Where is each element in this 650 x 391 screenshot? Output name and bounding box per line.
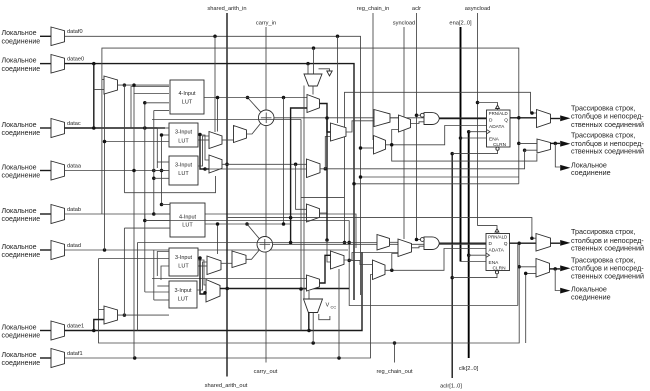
LUT 3-input top-2 xyxy=(169,156,198,185)
wire out3 xyxy=(551,242,561,244)
svg-text:aclr: aclr xyxy=(412,6,421,12)
wire mid1b xyxy=(198,260,206,285)
wire carrymux in2 xyxy=(313,48,315,74)
wire MA2 out xyxy=(390,241,399,243)
wire W1 out diag xyxy=(247,124,261,135)
junction datae0-b xyxy=(306,62,310,66)
wire aclr-and1 xyxy=(417,114,421,116)
svg-text:соединение: соединение xyxy=(2,130,41,137)
arrow out3 xyxy=(560,240,570,246)
svg-text:ственных соединений: ственных соединений xyxy=(571,243,644,252)
junction v161c xyxy=(160,203,164,207)
wire bundle v3b xyxy=(153,250,155,300)
svg-text:ADATA: ADATA xyxy=(489,124,505,130)
wire adder bottom out xyxy=(273,243,486,245)
wire bundle v1 xyxy=(123,85,125,193)
wire AND top out xyxy=(439,118,486,120)
wire datae0 to isel xyxy=(93,64,95,128)
wire B2l out xyxy=(220,288,349,290)
svg-text:dataf0: dataf0 xyxy=(67,29,83,35)
junction datac-b xyxy=(143,126,147,130)
wire syncload xyxy=(403,27,405,239)
wire isel top stub xyxy=(94,89,104,91)
wire lut1 in2b xyxy=(133,85,135,93)
svg-text:Локальное: Локальное xyxy=(2,352,37,359)
svg-text:PRN/ALD: PRN/ALD xyxy=(488,235,507,240)
wire mux4-in1 xyxy=(519,266,536,268)
svg-text:Локальное: Локальное xyxy=(2,122,37,129)
wire bundle v2 xyxy=(144,103,146,221)
junction aclr-ff2 xyxy=(450,276,454,280)
wire W2 out diag xyxy=(246,250,259,259)
svg-text:соединение: соединение xyxy=(2,333,41,340)
flip-flop bottom xyxy=(486,234,510,271)
wire out2 xyxy=(550,142,560,144)
wire bundle v1b xyxy=(123,228,125,315)
svg-text:LUT: LUT xyxy=(178,171,189,177)
wire v161 xyxy=(161,135,163,205)
wire lut1 in2 xyxy=(134,94,169,171)
mux S2 xyxy=(307,204,320,222)
wire datae1 to isel xyxy=(94,320,104,331)
svg-text:asyncload: asyncload xyxy=(465,6,491,12)
junction shared-a xyxy=(225,163,229,167)
svg-text:PRN/ALD: PRN/ALD xyxy=(489,111,508,116)
wire w1 feed xyxy=(217,98,219,132)
ff2 clrn pin xyxy=(495,271,498,274)
wire left outer v xyxy=(104,89,106,251)
junction s1 out xyxy=(324,167,328,171)
wire lut6 in3 xyxy=(154,299,169,301)
input driver datae1 xyxy=(40,330,51,332)
junction adder top in xyxy=(246,96,250,100)
wire mid2 xyxy=(198,139,209,141)
wire c2 out xyxy=(320,255,331,283)
wire lut2 in3 xyxy=(105,141,170,143)
wire v 339 xyxy=(338,269,340,358)
wire box left edge xyxy=(137,243,139,331)
svg-text:Локальное: Локальное xyxy=(2,244,37,251)
junction w1 feed xyxy=(216,96,220,100)
svg-text:ena[2..0]: ena[2..0] xyxy=(449,21,472,27)
junction adder bottom in xyxy=(245,222,249,226)
wire cross y168 xyxy=(205,168,307,170)
wire v 327b xyxy=(326,118,328,240)
svg-text:соединение: соединение xyxy=(571,168,611,177)
svg-text:LUT: LUT xyxy=(182,223,193,229)
wire asyncload-ff1 xyxy=(478,103,498,106)
wire lut4 in2 xyxy=(154,213,170,215)
svg-text:datad: datad xyxy=(67,243,81,249)
VCC bracket xyxy=(319,314,330,320)
wire datae0 xyxy=(65,64,355,300)
wire mid5b xyxy=(197,262,207,290)
junction out4 xyxy=(553,267,557,271)
svg-text:datae0: datae0 xyxy=(67,57,84,63)
junction cross y183 xyxy=(352,182,356,186)
svg-text:D: D xyxy=(489,118,493,124)
junction carrymux-in2 xyxy=(312,46,316,50)
wire VCC out2 xyxy=(312,313,314,344)
wire isel top out xyxy=(118,84,170,86)
wire MC1 to MB xyxy=(392,130,399,145)
junction mux2-in2 xyxy=(523,148,527,152)
junction x349 cross xyxy=(347,241,351,245)
svg-text:соединение: соединение xyxy=(571,292,611,301)
junction w2 feed xyxy=(216,222,220,226)
wire mux3-in1 xyxy=(227,218,536,239)
svg-text:LUT: LUT xyxy=(178,139,189,145)
wire r2 feed xyxy=(349,260,373,264)
wire lut6 in2 xyxy=(145,291,169,293)
wire lut4 in3 xyxy=(145,220,170,222)
svg-text:ственных соединений: ственных соединений xyxy=(571,272,644,281)
wire carrymux out xyxy=(312,86,314,95)
mux MB top xyxy=(399,115,411,132)
junction isel top out xyxy=(123,83,127,87)
junction cross y177 xyxy=(359,175,363,179)
wire MC1 out to ADATA1 xyxy=(386,126,487,145)
svg-text:ственных соединений: ственных соединений xyxy=(571,120,644,129)
mux out3 xyxy=(536,234,551,252)
junction aclr-and2 xyxy=(415,238,419,242)
wire VCC out xyxy=(308,313,310,331)
junction Q1-a xyxy=(517,116,521,120)
wire lut1 in4 xyxy=(154,110,169,112)
wire r2 in xyxy=(327,240,331,262)
wire 4lut bottom out xyxy=(205,223,291,225)
junction Q2-c xyxy=(311,341,315,345)
wire isel bottom out xyxy=(118,314,170,316)
wire carry chain xyxy=(265,27,267,363)
wire mid3c xyxy=(200,258,206,294)
junction v161a xyxy=(160,133,164,137)
svg-text:datae1: datae1 xyxy=(67,324,84,330)
wire aclr-and2 xyxy=(417,239,421,241)
wire out1 xyxy=(551,118,561,120)
wire lut3 in1 xyxy=(157,161,169,163)
mux out4 xyxy=(536,259,550,278)
wire A1 out xyxy=(222,139,234,141)
mux input-select bottom xyxy=(104,306,118,324)
wire Q1 out xyxy=(510,117,537,119)
wire adder bottom in diag xyxy=(247,224,259,239)
mux S1 xyxy=(307,159,321,178)
arrow local2 xyxy=(560,288,570,294)
wire lut5 in3 xyxy=(161,266,169,280)
wire cross y242 xyxy=(138,242,378,244)
mux C1 xyxy=(307,95,320,113)
wire asyncload xyxy=(477,13,479,226)
junction lut4 in3b xyxy=(143,219,147,223)
AND gate bottom xyxy=(424,237,439,250)
wire mux4-in2 xyxy=(526,273,536,343)
mux MA bottom xyxy=(377,235,390,251)
wire asyncload-ff2 xyxy=(478,226,498,229)
wire lut2 in2 xyxy=(162,134,170,136)
svg-text:dataa: dataa xyxy=(67,164,82,170)
junction c2 in2 xyxy=(299,287,303,291)
input driver datae0 xyxy=(40,63,51,65)
junction mux4-in2 xyxy=(524,272,528,276)
arrow local1 xyxy=(560,165,570,171)
mux A2l xyxy=(207,256,221,275)
wire isel top stub2 xyxy=(102,79,104,81)
junction dataa xyxy=(152,169,156,173)
arrow out1 xyxy=(560,115,570,121)
junction datad xyxy=(103,248,107,252)
wire MC1 down y161 xyxy=(392,145,537,161)
junction datae1-a xyxy=(92,329,96,333)
wire comb wrap top xyxy=(345,92,537,197)
mux MC bottom xyxy=(373,260,386,280)
wire clk-ff2 xyxy=(469,254,486,256)
wire lut3 in3 xyxy=(154,177,169,179)
wire adder top out xyxy=(274,117,487,119)
arrow symbol top xyxy=(319,69,330,71)
svg-text:CC: CC xyxy=(331,305,337,310)
input driver dataf0 xyxy=(40,35,51,37)
junction shared-b xyxy=(225,287,229,291)
wire local2 xyxy=(555,269,560,291)
arrow out2 xyxy=(560,141,570,147)
svg-text:Локальное: Локальное xyxy=(2,324,37,331)
svg-text:V: V xyxy=(326,303,330,309)
wire s2 out xyxy=(320,213,328,240)
junction datac-a xyxy=(92,126,96,130)
svg-text:соединение: соединение xyxy=(2,216,41,223)
wire MB2 out xyxy=(412,246,425,248)
svg-text:соединение: соединение xyxy=(2,360,41,367)
svg-text:Локальное: Локальное xyxy=(2,164,37,171)
wire comb wrap bottom xyxy=(349,221,518,306)
wire v 301 xyxy=(300,120,302,331)
wire dataf0 xyxy=(65,36,361,295)
input driver datab xyxy=(40,213,51,215)
svg-text:Локальное: Локальное xyxy=(2,208,37,215)
junction datae1-b xyxy=(307,329,311,333)
svg-text:shared_arith_out: shared_arith_out xyxy=(205,383,248,389)
wire r1 in2 xyxy=(325,137,330,169)
wire B1 out xyxy=(222,163,307,165)
junction r2 in xyxy=(325,238,329,242)
adder top xyxy=(258,110,274,126)
mux B1 xyxy=(209,155,222,173)
wire adder top in diag xyxy=(248,98,261,113)
svg-text:LUT: LUT xyxy=(178,296,189,302)
junction MC1 out xyxy=(390,143,394,147)
svg-text:4-Input: 4-Input xyxy=(179,214,197,220)
mux W1 xyxy=(234,126,247,143)
junction lut1 in3 xyxy=(143,101,147,105)
junction Q2-a xyxy=(517,241,521,245)
junction mid3a xyxy=(198,133,202,137)
svg-text:соединение: соединение xyxy=(2,252,41,259)
wire dataf1 xyxy=(65,275,373,359)
junction mid3c xyxy=(198,256,202,260)
input driver dataf1 xyxy=(40,357,51,359)
junction aclr-and1 xyxy=(415,113,419,117)
wire reg_chain_out xyxy=(394,343,396,363)
svg-text:LUT: LUT xyxy=(178,264,189,270)
wire ena-ff1 xyxy=(461,137,487,139)
wire datac xyxy=(65,127,166,129)
wire bundle v2b xyxy=(144,214,146,292)
svg-text:4-Input: 4-Input xyxy=(178,91,196,97)
wire lut1 in3 xyxy=(145,102,169,104)
wire bundle v3 xyxy=(153,111,155,215)
junction mux3-in1 xyxy=(530,236,534,240)
wire v 295 xyxy=(296,164,307,209)
wire bundle v4 xyxy=(156,128,158,168)
svg-text:reg_chain_in: reg_chain_in xyxy=(357,6,390,12)
wire v 290 xyxy=(291,108,307,243)
junction v3 datab xyxy=(152,212,156,216)
svg-text:3-Input: 3-Input xyxy=(175,255,193,261)
svg-text:syncload: syncload xyxy=(393,21,415,27)
AND gate top xyxy=(424,113,439,125)
svg-text:3-Input: 3-Input xyxy=(175,163,193,169)
junction asyncload-ff1 xyxy=(476,101,480,105)
mux W2 xyxy=(232,251,246,268)
junction dataf1-a xyxy=(133,356,137,360)
svg-text:Трассировка строк,: Трассировка строк, xyxy=(571,227,635,236)
wire mux2-in1 xyxy=(519,142,537,144)
junction comb top in xyxy=(530,111,534,115)
wire reg_chain_in xyxy=(372,13,374,140)
LUT 3-input bottom-2 xyxy=(169,281,197,308)
flip-flop top xyxy=(487,110,511,147)
svg-text:carry_out: carry_out xyxy=(254,369,278,375)
mux MC top xyxy=(374,136,386,155)
wire cross y183 xyxy=(354,183,519,185)
wire U wrap L3 xyxy=(124,176,215,193)
junction MC1 in2 xyxy=(359,146,363,150)
junction v290 end xyxy=(289,241,293,245)
wire cross y177 xyxy=(361,176,519,178)
wire isel bottom stub2 xyxy=(99,309,105,311)
wire mid4 xyxy=(198,136,209,166)
LUT 4-input bottom xyxy=(170,203,205,237)
mux C2 xyxy=(307,275,320,291)
wire dataa xyxy=(65,170,166,172)
svg-text:Q: Q xyxy=(504,118,508,124)
wire AND bottom out xyxy=(439,242,486,244)
svg-text:ственных соединений: ственных соединений xyxy=(571,147,644,156)
wire MC2 out to ADATA2 xyxy=(385,249,486,271)
wire lut6 top rail xyxy=(152,278,307,280)
wire MC1 in2 xyxy=(361,147,374,149)
wire datad xyxy=(65,249,349,251)
wire MC2 to MB2 xyxy=(392,254,398,271)
svg-text:соединение: соединение xyxy=(2,39,41,46)
junction B1-r xyxy=(294,163,298,167)
wire lut4 in4 xyxy=(124,227,170,229)
wire lut2 top rail xyxy=(152,119,301,121)
wire lut2 in1 xyxy=(157,127,169,129)
svg-text:ENA: ENA xyxy=(489,260,500,266)
wire v 304 xyxy=(303,86,305,300)
svg-text:datab: datab xyxy=(67,207,81,213)
junction lut4 in3 xyxy=(132,169,136,173)
wire out4 xyxy=(550,268,561,270)
junction mux3-in1b xyxy=(289,216,293,220)
wire carrymux in1 xyxy=(307,64,309,74)
svg-text:carry_in: carry_in xyxy=(256,21,276,27)
wire lutout share xyxy=(283,98,285,225)
wire c2 in2 xyxy=(301,288,307,290)
junction lut-out-r xyxy=(282,96,286,100)
svg-text:clk[2..0]: clk[2..0] xyxy=(459,366,479,372)
wire MA out xyxy=(390,117,399,119)
wire datab xyxy=(65,214,357,248)
svg-text:3-Input: 3-Input xyxy=(175,130,193,136)
mux out2 xyxy=(537,139,551,153)
junction comb bottom xyxy=(347,259,351,263)
mux R2 xyxy=(331,251,345,269)
wire aclr[1..0] xyxy=(451,154,453,378)
junction mid3b xyxy=(203,167,207,171)
junction Q1-b xyxy=(517,142,521,146)
svg-text:соединение: соединение xyxy=(2,66,41,73)
svg-text:соединение: соединение xyxy=(2,173,41,180)
wire carrymux2 in xyxy=(308,291,310,299)
svg-text:CLRN: CLRN xyxy=(492,266,506,272)
wire feedback bottom Q2 xyxy=(99,243,520,343)
junction datae0-a xyxy=(92,62,96,66)
wire aclr xyxy=(416,13,418,240)
mux out1 xyxy=(537,110,551,128)
junction r1 in xyxy=(325,116,329,120)
svg-text:datac: datac xyxy=(67,121,81,127)
LUT 4-input top xyxy=(170,80,204,114)
junction clk-ff1 xyxy=(467,130,471,134)
svg-text:CLRN: CLRN xyxy=(493,142,507,148)
svg-text:reg_chain_out: reg_chain_out xyxy=(376,369,412,375)
wire comb drop x344 xyxy=(344,198,346,243)
junction isel bottom out xyxy=(123,313,127,317)
wire lut4 in1 xyxy=(162,204,171,206)
arrow out4 xyxy=(560,265,570,271)
mux input-select top xyxy=(104,76,118,94)
wire cross y197 xyxy=(301,197,345,199)
wire cross y220 xyxy=(145,220,349,222)
mux B2l xyxy=(206,280,220,303)
junction clk-ff2 xyxy=(467,253,471,257)
wire r2 out xyxy=(344,253,398,261)
svg-text:LUT: LUT xyxy=(182,99,193,105)
wire lut6 in1 xyxy=(157,285,169,287)
wire lut5 in1 xyxy=(157,252,169,277)
junction lut3 in3 xyxy=(152,177,156,181)
mux MA top xyxy=(374,110,390,127)
svg-text:shared_arith_in: shared_arith_in xyxy=(207,6,246,12)
wire mid1 xyxy=(198,135,209,160)
wire w2 feed xyxy=(217,224,219,254)
wire shared_arith_in chain xyxy=(226,13,228,377)
wire MB out xyxy=(411,122,425,124)
wire datae1 xyxy=(65,252,363,331)
svg-text:3-Input: 3-Input xyxy=(174,288,192,294)
adder bottom xyxy=(257,237,273,253)
wire r1 out xyxy=(346,121,374,132)
wire clk[2..0] xyxy=(468,132,470,358)
mux R1 xyxy=(331,123,347,141)
junction reg_chain_out xyxy=(393,341,397,345)
junction mid4b xyxy=(203,291,207,295)
wire c1 out xyxy=(320,104,331,133)
svg-text:ENA: ENA xyxy=(489,137,500,143)
